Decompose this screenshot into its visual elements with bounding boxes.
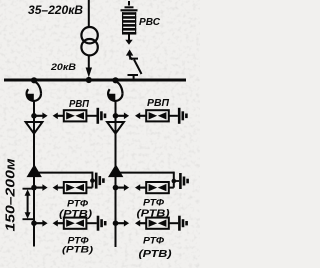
svg-text:РТФ: РТФ	[67, 199, 88, 209]
svg-text:(РТВ): (РТВ)	[137, 209, 170, 220]
svg-text:РВП: РВП	[147, 98, 170, 109]
svg-text:РТФ: РТФ	[143, 198, 164, 208]
svg-text:(РТВ): (РТВ)	[62, 243, 93, 254]
svg-text:35–220кВ: 35–220кВ	[28, 3, 83, 17]
svg-text:РВП: РВП	[69, 99, 90, 110]
svg-text:150–200м: 150–200м	[3, 159, 17, 232]
svg-text:(РТВ): (РТВ)	[59, 209, 92, 220]
svg-text:РВС: РВС	[139, 16, 160, 28]
svg-text:(РТВ): (РТВ)	[139, 249, 173, 260]
svg-text:20кВ: 20кВ	[50, 62, 77, 72]
svg-text:РТФ: РТФ	[143, 236, 164, 246]
